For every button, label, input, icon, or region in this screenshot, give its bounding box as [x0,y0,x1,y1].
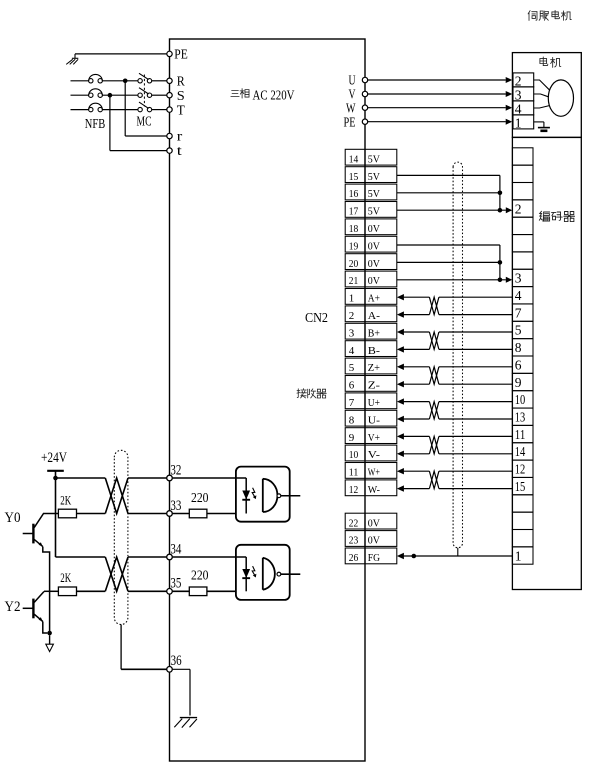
CN2 pin 8 U- [345,410,365,426]
motor winding circle [548,80,573,116]
svg-text:V-: V- [368,449,381,461]
svg-text:4: 4 [349,345,355,357]
label: encoder [539,211,549,221]
CN2 pin 19 0V [345,236,365,252]
svg-text:1: 1 [515,116,522,131]
V+/V- differential pair wires [397,433,404,439]
svg-text:9: 9 [515,375,522,390]
svg-text:A-: A- [368,310,381,322]
output [277,494,281,498]
wire V to motor [368,93,506,95]
svg-text:7: 7 [349,397,355,409]
svg-text:W-: W- [368,484,380,496]
CN2 pin 17 5V [345,202,365,218]
emitter common node [47,631,52,636]
photodetector D [263,479,278,512]
shield capsule (input side) [114,450,128,624]
shield cable capsule (CN2 side) [453,162,462,548]
svg-text:AC 220V: AC 220V [253,88,295,103]
svg-text:B+: B+ [368,327,380,339]
label: receiver [297,389,307,398]
CN2 pin 14 5V [345,149,365,165]
svg-text:5V: 5V [368,206,380,218]
svg-text:20: 20 [349,258,359,270]
svg-text:21: 21 [349,275,359,287]
twisted pair Y2 [105,557,128,591]
twisted pair symbol V [429,436,439,453]
svg-text:PE: PE [174,48,188,63]
svg-text:0V: 0V [368,535,380,547]
terminal 36 [167,667,173,673]
svg-text:6: 6 [515,357,522,372]
2K resistor Y2 [44,590,58,592]
svg-text:34: 34 [170,541,181,557]
common return arrow [49,635,51,644]
svg-text:3: 3 [515,271,522,286]
CN2 pin 23 0V [345,531,365,547]
svg-text:36: 36 [171,653,182,669]
svg-text:2K: 2K [60,570,71,585]
svg-text:W+: W+ [368,467,380,479]
MC contact pole S [138,93,142,97]
MC contact pole R [138,79,142,83]
svg-text:12: 12 [349,484,359,496]
svg-text:2K: 2K [60,492,71,507]
svg-text:2: 2 [515,201,522,216]
wire S node to t terminal [109,95,111,150]
svg-text:5: 5 [515,323,522,338]
svg-text:16: 16 [349,188,359,200]
CN2 pin 26 FG [345,548,365,564]
MC contact pole T [138,107,142,111]
+24V supply bar [47,470,64,472]
twisted pair symbol W [429,471,439,488]
svg-text:NFB: NFB [85,117,105,132]
terminal t [167,148,172,153]
svg-text:5V: 5V [368,153,380,165]
terminal S [167,93,172,98]
wire 35 to 220 resistor [173,590,190,592]
svg-text:3: 3 [515,88,522,103]
svg-text:14: 14 [515,444,526,459]
light arrow [252,488,255,498]
svg-text:1: 1 [349,293,355,305]
svg-text:9: 9 [349,432,355,444]
svg-text:15: 15 [349,171,359,183]
svg-text:Z+: Z+ [368,362,380,374]
CN2 pin 3 B+ [345,323,365,339]
svg-text:10: 10 [515,392,526,407]
svg-text:19: 19 [349,240,359,252]
CN2 pin 2 A- [345,306,365,322]
svg-text:2: 2 [349,310,355,322]
terminal r [167,133,172,138]
node on R phase [123,79,128,84]
svg-text:U: U [349,73,356,88]
svg-text:33: 33 [170,498,181,514]
FG wire to encoder pin 1 [397,553,404,559]
svg-text:18: 18 [349,223,359,235]
svg-text:26: 26 [349,552,359,564]
title: servo motor [528,11,537,21]
shield drain wire to terminal 36 [120,625,122,670]
svg-text:17: 17 [349,206,359,218]
LED vertical [245,478,247,514]
svg-text:FG: FG [368,552,380,564]
CN2 pin 18 0V [345,219,365,235]
NFB breaker pole T [71,109,89,111]
terminal 33 [167,511,173,517]
svg-text:5V: 5V [368,188,380,200]
svg-text:5: 5 [349,362,355,374]
svg-text:14: 14 [349,153,359,165]
wire W to motor [368,107,506,109]
MC linkage dashed line [143,75,145,107]
svg-text:S: S [177,89,185,104]
terminal T [167,107,172,112]
node on S phase [108,93,113,98]
220 resistor Y0 [189,509,207,518]
twisted pair Y0 [105,478,128,514]
svg-text:Y0: Y0 [5,510,21,526]
svg-text:0V: 0V [368,223,380,235]
wire R node to r terminal [124,81,126,136]
terminal 35 [167,589,173,595]
wire into opto anode [173,477,247,479]
wire into opto anode [173,556,247,558]
CN2 pin 22 0V [345,513,365,529]
NFB breaker pole S [71,94,89,96]
svg-text:15: 15 [515,479,526,494]
terminal R [167,78,172,83]
wire PE to motor [368,121,506,123]
label: motor [540,57,548,66]
+24V feed wire [55,471,57,557]
CN2 pin 10 V- [345,445,365,461]
svg-text:7: 7 [515,305,522,320]
LED triangle [242,491,250,500]
optocoupler box [236,545,290,600]
220 resistor Y2 [189,587,207,596]
terminal 34 [167,554,173,560]
servo drive main box [170,39,366,761]
Z+/Z- differential pair wires [397,364,404,370]
svg-text:MC: MC [137,115,152,130]
B+/B- differential pair wires [397,329,404,335]
shield drain to FG [457,548,459,556]
svg-text:8: 8 [515,340,522,355]
svg-text:PE: PE [344,114,356,129]
motor frame ground [534,121,544,123]
CN2 pin 4 B- [345,341,365,357]
terminal 32 [167,475,173,481]
svg-text:11: 11 [349,467,359,479]
svg-text:4: 4 [515,102,522,117]
5V bus wires rows 15,16,17 [397,174,500,176]
twisted pair symbol Z [429,367,439,384]
CN2 pin 11 W+ [345,463,365,479]
CN2 pin 12 W- [345,480,365,496]
svg-text:6: 6 [349,380,355,392]
svg-text:r: r [177,130,183,145]
CN2 pin 1 A+ [345,289,365,305]
svg-text:Z-: Z- [368,380,381,392]
svg-text:220: 220 [191,569,209,584]
A+/A- differential pair wires [397,294,404,300]
svg-text:0V: 0V [368,258,380,270]
PE terminal [75,53,167,55]
svg-text:R: R [177,75,186,90]
svg-text:V+: V+ [368,432,380,444]
light arrow [252,566,255,576]
encoder box [512,137,581,589]
optocoupler box [236,467,290,522]
wire U to motor [368,79,506,81]
svg-text:U-: U- [368,414,381,426]
svg-text:10: 10 [349,449,359,461]
label three-phase AC 220V [231,91,239,97]
CN2 pin 16 5V [345,184,365,200]
W+/W- differential pair wires [397,468,404,474]
svg-text:B-: B- [368,345,381,357]
wire 33 to 220 resistor [173,513,190,515]
svg-text:13: 13 [515,409,526,424]
svg-text:+24V: +24V [41,450,67,466]
0V bus wires rows 19,20,21 [397,244,500,246]
svg-text:22: 22 [349,517,359,529]
NFB breaker pole R [71,80,89,82]
svg-text:A+: A+ [368,293,380,305]
leads cells to motor [534,80,550,90]
twisted pair symbol U [429,402,439,419]
motor box [512,53,581,138]
svg-text:W: W [346,100,356,115]
svg-text:U+: U+ [368,397,380,409]
svg-text:220: 220 [191,491,209,506]
CN2 pin 20 0V [345,254,365,270]
twisted pair symbol A [429,297,439,314]
photodetector D [263,558,275,590]
svg-text:12: 12 [515,462,526,477]
U+/U- differential pair wires [397,398,404,404]
svg-text:35: 35 [170,576,181,592]
svg-text:2: 2 [515,74,522,89]
svg-text:32: 32 [170,462,181,478]
svg-text:0V: 0V [368,240,380,252]
svg-text:3: 3 [349,327,355,339]
CN2 pin 21 0V [345,271,365,287]
wire 36 to internal ground [173,668,190,670]
CN2 pin 9 V+ [345,428,365,444]
svg-text:Y2: Y2 [5,599,21,615]
LED vertical [245,557,247,591]
encoder pin cells [512,148,533,165]
2K resistor Y0 [43,513,58,515]
CN2 pin 15 5V [345,167,365,183]
motor terminal cells 2 3 4 1 [513,73,534,87]
svg-text:1: 1 [515,548,522,563]
svg-text:0V: 0V [368,275,380,287]
svg-text:4: 4 [515,288,522,303]
twisted pair symbol B [429,332,439,349]
svg-text:8: 8 [349,414,355,426]
svg-text:t: t [177,144,182,159]
CN2 pin 7 U+ [345,393,365,409]
svg-text:CN2: CN2 [305,311,328,326]
svg-text:23: 23 [349,535,359,547]
svg-text:T: T [177,104,185,119]
CN2 pin 5 Z+ [345,358,365,374]
svg-text:0V: 0V [368,517,380,529]
protective earth symbol [74,54,76,58]
svg-text:11: 11 [515,427,526,442]
output [277,572,281,576]
svg-text:5V: 5V [368,171,380,183]
CN2 pin 6 Z- [345,376,365,392]
LED triangle [242,569,250,578]
internal ground symbol [180,717,197,719]
